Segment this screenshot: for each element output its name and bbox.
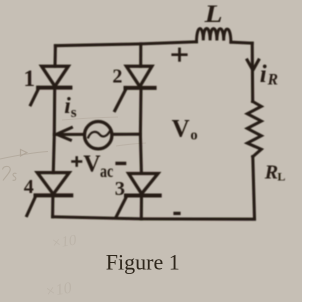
- svg-text:o: o: [190, 127, 197, 143]
- minus sign (Vo -): [173, 212, 180, 215]
- wire top rail (left corner to inductor): [55, 42, 196, 46]
- thyristor Q3: [116, 174, 159, 217]
- svg-text:3: 3: [115, 178, 125, 200]
- svg-text:4: 4: [24, 176, 34, 198]
- svg-text:L: L: [204, 0, 223, 28]
- minus sign (Vac -): [117, 162, 125, 165]
- svg-text:L: L: [277, 170, 285, 184]
- wire left bus above thyristor 1: [53, 46, 56, 66]
- thyristor Q4: [27, 173, 72, 216]
- wire right bus lower: [253, 157, 255, 219]
- wire middle bus below thyristor 3: [140, 196, 143, 219]
- svg-text:×10: ×10: [50, 233, 78, 252]
- inductor L: [197, 28, 231, 42]
- svg-text:R: R: [267, 71, 278, 88]
- wire top-right segment: [231, 42, 252, 43]
- svg-text:Figure 1: Figure 1: [106, 250, 180, 275]
- AC source Vac: [85, 122, 112, 149]
- wire left bus (thyristor 1 to thyristor 4, with source junction): [53, 88, 54, 173]
- svg-text:s: s: [71, 105, 77, 121]
- faint pencil bleed-through marks (background): [0, 117, 146, 181]
- thyristor Q1: [31, 66, 71, 105]
- wire right bus upper: [251, 43, 255, 101]
- svg-text:V: V: [83, 151, 101, 177]
- wire middle bus (thyristor 2 to thyristor 3): [140, 88, 141, 173]
- wire middle bus above thyristor 2: [139, 44, 142, 66]
- svg-text:i: i: [260, 61, 267, 88]
- arrow head iR: [246, 59, 259, 71]
- wire bottom rail: [53, 217, 255, 219]
- svg-text:1: 1: [24, 66, 36, 91]
- wire left bus below thyristor 4: [51, 195, 54, 216]
- plus sign (Vac +): [71, 156, 82, 167]
- svg-text:ac: ac: [100, 163, 113, 182]
- plus sign (Vo +): [171, 48, 187, 62]
- thyristor Q2: [115, 66, 155, 110]
- wire source branch: [54, 133, 84, 136]
- svg-text:V: V: [172, 116, 190, 143]
- svg-text:2: 2: [112, 65, 122, 87]
- arrow head is (source current, pointing left): [57, 127, 73, 141]
- resistor RL: [247, 102, 261, 157]
- svg-text:×10: ×10: [44, 280, 73, 301]
- svg-text:R: R: [264, 161, 278, 183]
